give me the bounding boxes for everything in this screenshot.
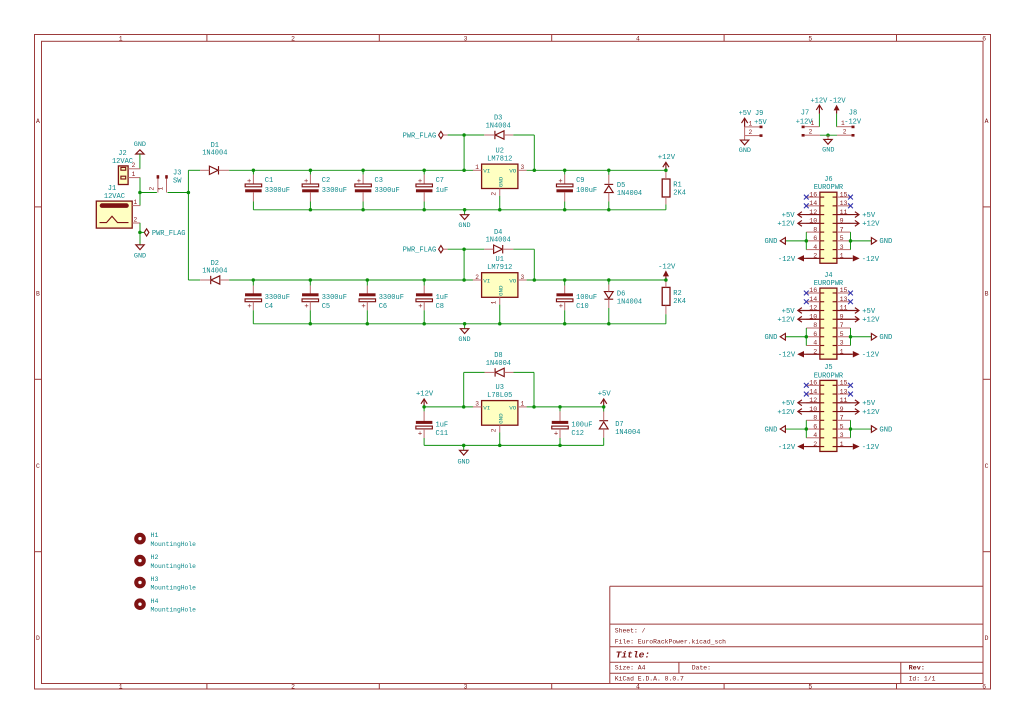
capacitor C3 3300uF xyxy=(355,170,400,210)
capacitor C6 3300uF xyxy=(359,280,404,324)
svg-text:2: 2 xyxy=(475,274,479,281)
junction U3 GND pin at rail xyxy=(498,444,502,448)
wire J1.2 to GND xyxy=(139,223,141,245)
wire D2 to U1 VI rail xyxy=(229,279,473,281)
svg-text:GND: GND xyxy=(879,426,892,434)
svg-text:C: C xyxy=(985,463,989,470)
svg-text:3300uF: 3300uF xyxy=(322,187,347,195)
svg-text:+12V: +12V xyxy=(777,409,795,417)
svg-text:1: 1 xyxy=(841,120,845,127)
svg-text:14: 14 xyxy=(809,296,817,303)
svg-text:Id: 1/1: Id: 1/1 xyxy=(909,675,936,682)
svg-text:6: 6 xyxy=(813,423,817,430)
svg-text:GND: GND xyxy=(457,458,469,466)
diode D6 1N4004 xyxy=(604,280,642,324)
svg-text:4: 4 xyxy=(813,244,817,251)
svg-text:4: 4 xyxy=(636,36,640,43)
svg-text:+12V: +12V xyxy=(862,317,880,325)
svg-text:16: 16 xyxy=(809,380,817,387)
svg-text:1: 1 xyxy=(132,171,136,178)
power flag PWR_FLAG (at D3) xyxy=(403,131,448,140)
svg-text:2: 2 xyxy=(132,162,136,169)
svg-text:VI: VI xyxy=(483,168,490,175)
connector J7 +12V test point xyxy=(796,109,820,136)
power flag PWR_FLAG (at D4) xyxy=(403,246,448,255)
wire D8 branch up xyxy=(463,372,465,407)
junction D4 branch xyxy=(462,247,466,251)
junction on channel 2 VO rail xyxy=(533,278,537,282)
svg-text:3300uF: 3300uF xyxy=(322,294,347,302)
capacitor C12 100uF xyxy=(552,407,593,446)
svg-text:1: 1 xyxy=(521,401,525,408)
svg-text:1uF: 1uF xyxy=(436,294,449,302)
junction on VO rail at D3 branch xyxy=(533,169,537,173)
svg-text:2K4: 2K4 xyxy=(673,298,686,306)
power symbol GND at J7/J8 xyxy=(822,135,834,154)
svg-text:+: + xyxy=(418,430,422,438)
svg-text:+5V: +5V xyxy=(782,212,796,220)
svg-text:PWR_FLAG: PWR_FLAG xyxy=(152,230,186,238)
svg-text:14: 14 xyxy=(809,200,817,207)
channel 2 ground rail xyxy=(253,323,666,325)
svg-text:-12V: -12V xyxy=(658,263,676,271)
svg-text:1N4004: 1N4004 xyxy=(615,429,640,437)
svg-text:100uF: 100uF xyxy=(576,187,597,195)
diode D1 1N4004 xyxy=(200,142,229,175)
svg-text:-12V: -12V xyxy=(862,256,880,264)
svg-text:13: 13 xyxy=(840,296,848,303)
svg-text:100uF: 100uF xyxy=(576,294,597,302)
svg-text:4: 4 xyxy=(813,340,817,347)
svg-text:12VAC: 12VAC xyxy=(112,158,133,166)
junctions on channel 2 ground rail xyxy=(309,322,313,326)
svg-text:2: 2 xyxy=(749,129,753,136)
svg-text:1: 1 xyxy=(749,120,753,127)
svg-text:+12V: +12V xyxy=(777,317,795,325)
svg-text:+: + xyxy=(558,178,562,186)
wire to D2 xyxy=(188,279,200,281)
svg-text:3300uF: 3300uF xyxy=(379,294,404,302)
diode D2 1N4004 xyxy=(200,260,229,284)
svg-text:D7: D7 xyxy=(615,421,623,429)
power symbol +12V (channel 3 input) xyxy=(416,391,434,407)
capacitor C2 3300uF xyxy=(302,170,347,210)
svg-text:+12V: +12V xyxy=(777,221,795,229)
wire J2.2 to GND xyxy=(139,154,141,169)
svg-text:J3: J3 xyxy=(173,169,181,177)
junction D8 branch left xyxy=(462,405,466,409)
svg-text:GND: GND xyxy=(497,413,504,424)
svg-text:+: + xyxy=(554,430,558,438)
svg-text:MountingHole: MountingHole xyxy=(151,563,197,570)
svg-text:14: 14 xyxy=(809,388,817,395)
junctions on ground rail xyxy=(309,208,313,212)
diode D8 1N4004 (protection) xyxy=(485,352,514,377)
power symbol +12V (channel 1 output) xyxy=(658,154,676,170)
svg-text:+: + xyxy=(559,303,563,311)
svg-text:MountingHole: MountingHole xyxy=(151,606,197,613)
svg-text:J7: J7 xyxy=(801,109,809,117)
svg-text:R1: R1 xyxy=(673,181,681,189)
svg-text:12VAC: 12VAC xyxy=(104,193,125,201)
svg-text:7: 7 xyxy=(840,322,844,329)
svg-text:Rev:: Rev: xyxy=(909,665,925,673)
svg-text:R2: R2 xyxy=(673,290,681,298)
wire branch down to channel 2 VI rail xyxy=(463,249,465,280)
power flag PWR_FLAG (input) xyxy=(140,229,186,238)
svg-text:13: 13 xyxy=(840,200,848,207)
connector J1 12VAC (barrel jack) xyxy=(96,185,140,228)
channel 3 ground rail xyxy=(424,444,604,446)
capacitor C7 1uF xyxy=(416,170,448,210)
svg-text:+: + xyxy=(304,303,308,311)
wire D1 to U2 VI rail xyxy=(229,169,473,171)
svg-text:13: 13 xyxy=(840,388,848,395)
mounting hole H4 xyxy=(134,598,196,614)
svg-text:D6: D6 xyxy=(617,290,625,298)
svg-text:-12V: -12V xyxy=(829,97,847,105)
svg-text:J2: J2 xyxy=(118,150,126,158)
svg-text:C10: C10 xyxy=(576,303,589,311)
svg-text:+12V: +12V xyxy=(862,409,880,417)
junction at -12V / R2 xyxy=(664,278,668,282)
svg-text:KiCad E.D.A. 8.0.7: KiCad E.D.A. 8.0.7 xyxy=(615,675,684,682)
svg-text:2: 2 xyxy=(491,428,498,432)
svg-text:D2: D2 xyxy=(211,260,219,268)
capacitor C8 1uF xyxy=(416,280,448,324)
diode D4 1N4004 (protection) xyxy=(484,229,513,254)
svg-text:-12V: -12V xyxy=(778,352,796,360)
mounting hole H1 xyxy=(134,532,196,548)
wire J3 to main node xyxy=(168,192,189,194)
svg-text:15: 15 xyxy=(840,191,848,198)
svg-text:C8: C8 xyxy=(436,303,444,311)
svg-text:VI: VI xyxy=(483,404,490,411)
wire U3 VO rail to +5V xyxy=(527,406,604,408)
mounting hole H2 xyxy=(134,554,196,570)
svg-text:-12V: -12V xyxy=(778,256,796,264)
svg-text:C4: C4 xyxy=(265,303,273,311)
svg-text:+: + xyxy=(247,303,251,311)
svg-text:6: 6 xyxy=(813,235,817,242)
mounting hole H3 xyxy=(134,576,196,592)
svg-text:A: A xyxy=(36,118,40,125)
svg-text:J6: J6 xyxy=(824,176,832,184)
svg-text:2: 2 xyxy=(133,216,137,223)
svg-text:GND: GND xyxy=(458,336,470,344)
svg-text:3300uF: 3300uF xyxy=(265,294,290,302)
svg-text:U2: U2 xyxy=(496,147,504,155)
svg-text:D: D xyxy=(985,635,989,642)
diode D5 1N4004 xyxy=(604,170,642,210)
wire U2 VO rail to +12V xyxy=(527,169,666,171)
capacitor C9 100uF xyxy=(556,170,597,210)
wire PWR_FLAG to D3 node xyxy=(448,134,485,136)
svg-text:3: 3 xyxy=(464,36,468,43)
svg-text:2: 2 xyxy=(491,192,498,196)
svg-text:1: 1 xyxy=(810,120,814,127)
svg-text:GND: GND xyxy=(764,426,777,434)
svg-text:C: C xyxy=(36,463,40,470)
svg-text:1N4004: 1N4004 xyxy=(617,190,642,198)
wire PWR_FLAG to D4 node xyxy=(448,248,485,250)
svg-text:C11: C11 xyxy=(436,430,449,438)
svg-text:1: 1 xyxy=(157,186,164,190)
svg-text:B: B xyxy=(36,290,40,297)
power symbol GND (channel 2) xyxy=(458,324,470,344)
svg-text:D8: D8 xyxy=(494,352,502,360)
power symbol +12V at J7 xyxy=(810,97,828,126)
svg-text:6: 6 xyxy=(982,684,986,691)
wire J2.1 / J1.1 to node xyxy=(139,178,141,206)
svg-text:3300uF: 3300uF xyxy=(375,187,400,195)
svg-text:+5V: +5V xyxy=(782,400,796,408)
svg-text:3: 3 xyxy=(464,684,468,691)
junction U2 GND pin at rail xyxy=(498,208,502,212)
svg-text:5: 5 xyxy=(840,331,844,338)
wire D3 to VO branch xyxy=(513,134,534,136)
svg-text:6: 6 xyxy=(813,331,817,338)
svg-text:H3: H3 xyxy=(151,576,159,583)
svg-text:U1: U1 xyxy=(496,256,504,264)
wire to D1 xyxy=(188,169,200,171)
svg-text:16: 16 xyxy=(809,287,817,294)
capacitor C4 3300uF xyxy=(245,280,290,324)
junction on channel 3 VO rail xyxy=(532,405,536,409)
svg-text:GND: GND xyxy=(739,147,751,155)
power symbol GND (channel 3) xyxy=(457,445,469,466)
svg-text:-12V: -12V xyxy=(778,444,796,452)
svg-text:8: 8 xyxy=(813,322,817,329)
svg-text:+5V: +5V xyxy=(862,308,876,316)
wire input node vertical (to D1 and D2 rows) xyxy=(187,170,189,280)
connector J5 EUROPWR xyxy=(764,364,892,452)
svg-text:1N4004: 1N4004 xyxy=(202,268,227,276)
svg-text:MountingHole: MountingHole xyxy=(151,585,197,592)
svg-text:-12V: -12V xyxy=(844,118,862,126)
J9 pin 2 xyxy=(745,129,763,137)
connector J8 -12V test point xyxy=(837,109,862,136)
svg-text:PWR_FLAG: PWR_FLAG xyxy=(403,132,437,140)
svg-text:3300uF: 3300uF xyxy=(265,187,290,195)
svg-text:File: EuroRackPower.kicad_sch: File: EuroRackPower.kicad_sch xyxy=(615,638,726,645)
power symbol GND (top, at J2 pin 2) xyxy=(134,141,146,154)
svg-text:+: + xyxy=(418,303,422,311)
svg-text:+: + xyxy=(357,178,361,186)
svg-text:15: 15 xyxy=(840,380,848,387)
svg-text:J8: J8 xyxy=(849,109,857,117)
connector J3 SW xyxy=(149,169,183,192)
svg-text:+12V: +12V xyxy=(416,391,434,399)
svg-text:2: 2 xyxy=(291,36,295,43)
connector J6 EUROPWR xyxy=(764,176,892,264)
svg-text:GND: GND xyxy=(822,146,834,154)
svg-text:5: 5 xyxy=(808,684,812,691)
capacitor C11 1uF xyxy=(416,407,448,446)
connector J4 EUROPWR xyxy=(764,272,892,360)
svg-text:GND: GND xyxy=(879,334,892,342)
regulator U1 LM7912 xyxy=(473,256,527,324)
junctions on channel 3 ground rail xyxy=(462,444,466,448)
wire node to J3 xyxy=(140,192,157,194)
svg-text:1: 1 xyxy=(133,199,137,206)
svg-text:1: 1 xyxy=(119,36,123,43)
power symbol GND (below J1) xyxy=(134,245,146,261)
svg-text:Size: A4: Size: A4 xyxy=(615,665,646,672)
svg-text:1: 1 xyxy=(475,164,479,171)
svg-text:1N4004: 1N4004 xyxy=(486,122,511,130)
svg-text:2K4: 2K4 xyxy=(673,190,686,198)
svg-text:Sheet: /: Sheet: / xyxy=(615,627,646,634)
svg-text:2: 2 xyxy=(843,129,847,136)
wire D4 to VO branch xyxy=(513,248,534,250)
svg-text:4: 4 xyxy=(813,432,817,439)
svg-text:1uF: 1uF xyxy=(436,421,449,429)
svg-text:3: 3 xyxy=(840,244,844,251)
svg-text:5: 5 xyxy=(840,235,844,242)
capacitor C10 100uF xyxy=(556,280,597,324)
junctions on channel 2 VI rail xyxy=(252,278,256,282)
svg-text:C12: C12 xyxy=(571,430,584,438)
svg-text:3: 3 xyxy=(840,340,844,347)
junctions on VI rail (C1, C2, C3, C7) xyxy=(252,169,256,173)
channel 3 VI rail xyxy=(424,406,473,408)
connector J2 12VAC xyxy=(112,150,140,185)
svg-text:B: B xyxy=(985,290,989,297)
svg-text:+5V: +5V xyxy=(739,110,752,118)
svg-text:PWR_FLAG: PWR_FLAG xyxy=(403,247,437,255)
svg-text:LM7912: LM7912 xyxy=(487,264,512,272)
svg-text:5: 5 xyxy=(840,423,844,430)
capacitor C5 3300uF xyxy=(302,280,347,324)
svg-text:VO: VO xyxy=(509,404,517,411)
junction main input node xyxy=(187,191,191,195)
svg-text:GND: GND xyxy=(764,334,777,342)
svg-text:GND: GND xyxy=(134,253,146,261)
svg-text:C7: C7 xyxy=(436,177,444,185)
svg-text:Title:: Title: xyxy=(616,650,651,661)
power symbol GND (channel 1) xyxy=(458,210,470,230)
svg-text:8: 8 xyxy=(813,226,817,233)
svg-text:5: 5 xyxy=(808,36,812,43)
svg-text:VI: VI xyxy=(483,277,490,284)
regulator U3 L78L05 xyxy=(473,384,527,446)
svg-text:8: 8 xyxy=(813,415,817,422)
svg-text:J9: J9 xyxy=(755,110,763,118)
diode D3 1N4004 (protection) xyxy=(484,115,513,140)
junction at +5V / D7 xyxy=(602,405,606,409)
svg-text:-12V: -12V xyxy=(862,444,880,452)
svg-text:2: 2 xyxy=(809,129,813,136)
svg-text:2: 2 xyxy=(291,684,295,691)
svg-text:3: 3 xyxy=(521,274,525,281)
J9 pin 1 xyxy=(745,120,763,128)
svg-text:1: 1 xyxy=(491,300,498,304)
junction on VI rail xyxy=(462,169,466,173)
channel 1 ground rail xyxy=(253,209,666,211)
power symbol -12V at J8 xyxy=(829,97,847,126)
svg-text:C6: C6 xyxy=(379,303,387,311)
svg-text:D5: D5 xyxy=(617,182,625,190)
svg-text:GND: GND xyxy=(879,238,892,246)
svg-text:3: 3 xyxy=(840,432,844,439)
junction GND tie xyxy=(826,133,830,137)
svg-text:MountingHole: MountingHole xyxy=(151,541,197,548)
power symbol +5V (channel 3 output) xyxy=(598,391,612,407)
resistor R1 2K4 xyxy=(662,170,686,210)
svg-text:U3: U3 xyxy=(496,384,504,392)
svg-text:1: 1 xyxy=(119,684,123,691)
svg-text:+: + xyxy=(304,178,308,186)
junction +12V / C11 xyxy=(422,405,426,409)
svg-text:16: 16 xyxy=(809,191,817,198)
svg-text:100uF: 100uF xyxy=(571,421,592,429)
power symbol +5V at J9 xyxy=(742,118,748,127)
svg-text:+12V: +12V xyxy=(862,221,880,229)
svg-text:+5V: +5V xyxy=(862,400,876,408)
svg-text:Date:: Date: xyxy=(692,665,711,672)
wire branch down to VI rail xyxy=(463,135,465,170)
svg-text:J4: J4 xyxy=(824,272,832,280)
junction on channel 2 VI rail xyxy=(462,278,466,282)
svg-text:VO: VO xyxy=(509,277,517,284)
svg-text:H1: H1 xyxy=(151,532,159,539)
wire J7.2 to J8.2 (GND tie) xyxy=(820,134,837,136)
svg-text:GND: GND xyxy=(458,222,470,230)
svg-text:+5V: +5V xyxy=(862,212,876,220)
svg-text:A: A xyxy=(985,118,989,125)
svg-text:LM7812: LM7812 xyxy=(487,155,512,163)
svg-text:7: 7 xyxy=(840,415,844,422)
svg-text:C2: C2 xyxy=(322,177,330,185)
svg-text:+5V: +5V xyxy=(782,308,796,316)
svg-text:1N4004: 1N4004 xyxy=(486,237,511,245)
svg-text:D4: D4 xyxy=(494,229,502,237)
junction D3 anode branch xyxy=(462,133,466,137)
svg-text:6: 6 xyxy=(982,36,986,43)
svg-text:+12V: +12V xyxy=(658,154,676,162)
svg-text:H4: H4 xyxy=(151,598,159,605)
wire D8 to VO branch xyxy=(514,371,535,373)
svg-text:C9: C9 xyxy=(576,177,584,185)
svg-text:1N4004: 1N4004 xyxy=(202,150,227,158)
junction at J2/J1 node xyxy=(138,191,142,195)
svg-text:D3: D3 xyxy=(494,115,502,123)
svg-text:SW: SW xyxy=(173,178,182,186)
wire U1 VO rail to -12V xyxy=(527,279,666,281)
svg-text:GND: GND xyxy=(764,238,777,246)
resistor R2 2K4 xyxy=(662,280,686,324)
svg-text:D: D xyxy=(36,635,40,642)
svg-text:+5V: +5V xyxy=(598,391,612,399)
svg-text:H2: H2 xyxy=(151,554,159,561)
svg-text:15: 15 xyxy=(840,287,848,294)
power symbol GND at J9 xyxy=(739,127,751,155)
svg-text:GND: GND xyxy=(497,176,504,187)
svg-text:-12V: -12V xyxy=(862,352,880,360)
svg-text:GND: GND xyxy=(497,285,504,296)
svg-text:3: 3 xyxy=(475,401,479,408)
svg-text:+: + xyxy=(361,303,365,311)
junction at PWR_FLAG tap xyxy=(138,231,142,235)
svg-text:2: 2 xyxy=(149,186,156,190)
svg-text:1N4004: 1N4004 xyxy=(486,360,511,368)
regulator U2 LM7812 xyxy=(473,147,527,210)
svg-text:1uF: 1uF xyxy=(436,187,449,195)
svg-text:J5: J5 xyxy=(824,364,832,372)
svg-text:4: 4 xyxy=(636,684,640,691)
svg-text:7: 7 xyxy=(840,226,844,233)
